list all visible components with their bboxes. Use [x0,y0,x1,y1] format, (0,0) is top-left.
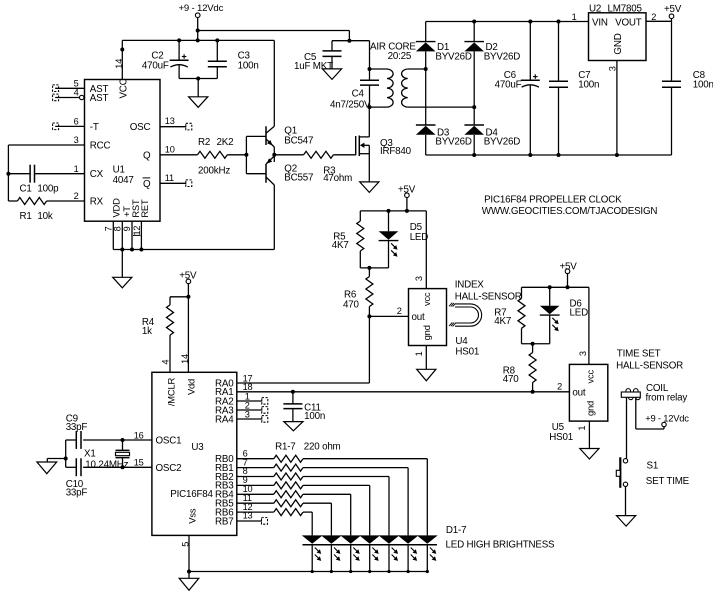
svg-text:Q: Q [143,150,151,161]
node +5V terminal R5 [398,184,416,211]
crystal circuit wires OSC1 [66,430,152,442]
regulator U2 LM7805 [589,3,647,60]
svg-text:1: 1 [74,164,79,174]
svg-text:3: 3 [608,66,618,71]
coil from relay [621,383,687,404]
LED D5 high brightness [340,535,361,573]
wire DC+ rail to U2 VIN [426,12,589,24]
svg-text:D1-7: D1-7 [446,525,466,536]
svg-text:BYV26D: BYV26D [484,137,521,148]
svg-text:S1: S1 [647,460,659,471]
wire DC- bottom rail [426,153,672,157]
capacitor C1 [8,164,84,195]
LED D1 high brightness [417,535,438,573]
svg-text:C4: C4 [352,89,365,100]
svg-text:+5V: +5V [398,184,416,195]
wire RB5 to LED column [330,503,332,535]
svg-text:14: 14 [114,59,124,69]
svg-text:LED: LED [410,232,429,243]
node Q1/Q2 emitters [272,147,276,162]
pin 1 RA2 stub [237,391,268,404]
svg-text:4K7: 4K7 [494,316,511,327]
resistor R1 on RB0 [237,448,427,462]
pin 17 RA0 number [243,373,253,383]
svg-text:BC557: BC557 [284,173,313,184]
svg-text:OSC1: OSC1 [156,436,182,447]
hall sensor U5 HS01 [549,351,608,443]
transistor Q1 BC547 [266,126,313,148]
svg-text:LED HIGH BRIGHTNESS: LED HIGH BRIGHTNESS [446,540,556,551]
wire top rail A [196,29,350,41]
resistor R2 [160,137,246,177]
svg-text:RX: RX [90,197,104,208]
wire +5V rail to U4 vcc [360,209,426,289]
resistor R5 [332,211,364,268]
svg-text:PIC16F84: PIC16F84 [170,489,213,500]
resistor R1 [8,191,84,222]
svg-text:13: 13 [243,511,253,521]
ground under U3 Vss [179,578,199,590]
LED D3 high brightness [379,535,400,573]
svg-text:Q: Q [143,179,151,190]
resistor R2 on RB1 [237,457,408,471]
ground under U4 [417,369,436,381]
svg-text:/MCLR: /MCLR [165,377,176,406]
wire +5V rail to U5 vcc [522,285,589,364]
svg-text:IRF840: IRF840 [380,146,412,157]
svg-text:8: 8 [113,226,123,231]
node +9-12Vdc terminal coil [645,412,689,426]
crystal circuit wires OSC2 [66,457,152,469]
svg-text:2K2: 2K2 [217,137,234,148]
svg-text:Vss: Vss [186,508,197,524]
pin 6 -T stub [53,117,85,130]
pin 13 OSC stub [160,116,192,130]
svg-text:Vdd: Vdd [186,379,197,395]
svg-text:1: 1 [414,351,424,356]
diode D3 BYV26D [416,125,472,155]
pin 11 /Q stub [160,173,192,187]
LED D6 [540,287,588,343]
ground under C11 [284,422,303,431]
svg-text:CX: CX [90,169,104,180]
wire LED cathode bus to Vss [187,570,427,574]
svg-text:RB7: RB7 [215,516,233,527]
svg-text:BYV26D: BYV26D [435,137,472,148]
svg-text:200kHz: 200kHz [198,166,230,177]
resistor R4 [142,297,189,373]
wire Q1/Q2 base bracket [244,136,266,173]
svg-text:WWW.GEOCITIES.COM/TJACODESIGN: WWW.GEOCITIES.COM/TJACODESIGN [482,206,658,217]
svg-text:10k: 10k [37,211,52,222]
capacitor C10 [66,458,88,498]
svg-text:gnd: gnd [421,325,432,340]
svg-text:9: 9 [122,226,132,231]
ground under Q3 [360,182,379,193]
svg-text:AST: AST [90,93,109,104]
svg-text:VDD: VDD [111,198,122,218]
wire RB2 to LED column [388,477,390,536]
LED D7 high brightness [302,535,323,573]
svg-text:4K7: 4K7 [332,240,349,251]
svg-text:470uF: 470uF [495,80,522,91]
svg-text:R1: R1 [20,211,32,222]
wire U5 gnd pin 1 [588,421,590,448]
ground under S1 [617,516,636,527]
pin 18 RA1 number [243,382,253,392]
svg-text:HS01: HS01 [455,346,479,357]
capacitor C2 [142,40,189,78]
wire C5-transformer node [332,39,370,43]
svg-text:BC547: BC547 [284,136,313,147]
svg-text:U3: U3 [191,442,204,453]
pin 3 RCC wire [8,135,84,145]
svg-text:470uF: 470uF [142,60,169,71]
svg-text:RCC: RCC [90,141,111,152]
svg-text:VIN: VIN [592,18,608,29]
ground left of crystal [37,462,57,474]
svg-text:C1: C1 [20,184,32,195]
svg-text:4047: 4047 [113,175,134,186]
capacitor C7 [549,22,599,156]
svg-text:X1: X1 [84,449,96,460]
svg-text:GND: GND [613,33,624,54]
svg-text:2: 2 [397,306,402,316]
pin 2 RA3 stub [237,400,268,413]
svg-text:16: 16 [134,430,144,440]
resistor R4 on RB3 [237,475,370,489]
pin 5 AST stub [53,78,85,91]
pin labels 4 and 14 U3 [161,354,191,365]
wire left vertical RCC-C1-R1 [6,145,10,201]
svg-text:470: 470 [343,300,359,311]
capacitor C4 [330,69,379,111]
transistor Q3 IRF840 [356,107,412,182]
svg-text:100n: 100n [578,80,599,91]
transistor Q2 BC557 [266,156,313,185]
wire U1 bottom pins to bus [113,221,274,251]
wire U4 gnd pin 1 [425,346,427,370]
node +5V output terminal [664,4,682,19]
wire RB0 to LED column [426,459,428,536]
svg-text:SET TIME: SET TIME [646,476,690,487]
svg-text:1: 1 [572,12,577,22]
resistor R3 on RB2 [237,466,389,480]
hall sensor U4 HS01 [409,276,480,357]
svg-text:R2: R2 [198,137,210,148]
wire coil right lead to +9-12Vdc [636,397,664,429]
svg-text:-T: -T [90,122,99,133]
wire U2 VOUT to +5V [646,12,672,22]
svg-text:220 ohm: 220 ohm [304,441,341,452]
svg-text:+5V: +5V [179,271,197,282]
wire RB6 to LED column [311,512,313,535]
capacitor C8 [662,21,713,155]
svg-text:1k: 1k [142,326,152,337]
ground under U1 [113,277,132,288]
svg-text:R1-7: R1-7 [275,441,295,452]
svg-text:20:25: 20:25 [388,51,412,62]
svg-text:3: 3 [245,409,250,419]
svg-text:4: 4 [74,88,79,98]
svg-text:100n: 100n [693,80,713,91]
svg-text:6: 6 [74,117,79,127]
svg-text:33pF: 33pF [66,422,88,433]
wire LED cathode bar [303,544,438,546]
resistor R5 on RB4 [237,484,351,498]
LED D4 high brightness [359,535,380,573]
wire U4 out to RA0 [237,306,409,383]
resistor R7 [494,287,525,343]
svg-text:3: 3 [414,276,424,281]
svg-text:RA4: RA4 [215,414,234,425]
svg-text:HS01: HS01 [549,432,573,443]
resistor R6 [343,268,373,317]
wire R7-D6 bottom node [522,342,550,346]
pin 3 RA4 stub [237,409,268,422]
svg-text:HALL-SENSOR: HALL-SENSOR [616,360,683,371]
ground under U5 [580,449,599,460]
wire RB1 to LED column [407,468,409,536]
resistor R3 [274,151,355,184]
capacitor C3 [208,40,259,78]
wire R5-D5 bottom node [360,266,388,270]
svg-text:+9 - 12Vdc: +9 - 12Vdc [645,412,689,423]
svg-text:47ohm: 47ohm [323,173,352,184]
svg-text:VOUT: VOUT [615,18,642,29]
svg-text:BYV26D: BYV26D [435,52,472,63]
svg-text:100n: 100n [238,60,259,71]
svg-text:100p: 100p [37,184,59,195]
wire RA1 to U5 out [237,382,570,394]
microcontroller U3 PIC16F84 body [152,372,237,535]
ground under C5 [322,69,341,80]
ground under C2/C3 [189,97,208,108]
wire secondary bottom to bridge [426,106,475,108]
svg-text:+9 - 12Vdc: +9 - 12Vdc [179,3,224,14]
diode D2 BYV26D [464,20,520,126]
wire Q1 collector up [273,40,275,126]
svg-text:12: 12 [132,226,142,236]
svg-text:OSC2: OSC2 [156,463,182,474]
svg-text:4n7/250V: 4n7/250V [330,100,371,111]
pin 4 AST stub with bubble [53,88,84,101]
wire top rail B [122,38,274,42]
svg-text:2: 2 [651,12,656,22]
svg-text:vcc: vcc [584,369,595,383]
label TIME SET HALL-SENSOR [616,349,683,372]
wire RB4 to LED column [350,494,352,535]
capacitor C6 [495,22,540,156]
wire coil left lead to S1 [626,397,628,458]
svg-text:100n: 100n [304,411,325,422]
svg-text:3: 3 [74,135,79,145]
svg-text:2: 2 [557,382,562,392]
svg-text:2: 2 [74,191,79,201]
switch S1 [616,457,689,488]
pin 13 RB7 stub [237,511,268,524]
wire U2 GND pin 3 [608,61,618,156]
svg-text:BYV26D: BYV26D [484,52,521,63]
label D1-7 LED HIGH BRIGHTNESS [446,525,556,551]
label R1-7 220 ohm [275,441,340,452]
svg-text:out: out [412,312,425,323]
svg-text:13: 13 [165,116,175,126]
wire VCC drop to U1 pin 14 [120,40,124,79]
svg-text:10.24MHz: 10.24MHz [85,459,128,470]
diode D1 BYV26D [416,22,472,126]
svg-text:VCC: VCC [118,78,129,98]
svg-text:+5V: +5V [664,4,682,15]
node +5V terminal R7 [560,261,578,287]
wire crystal left bracket [47,440,67,467]
diode D4 BYV26D [464,125,520,157]
LED D6 high brightness [321,535,342,573]
node +9-12Vdc supply terminal [179,3,224,40]
svg-text:33pF: 33pF [66,487,88,498]
svg-text:HALL-SENSOR: HALL-SENSOR [455,292,522,303]
svg-text:gnd: gnd [584,401,595,416]
capacitor C11 [283,392,325,422]
wire RB3 to LED column [369,485,371,535]
svg-text:TIME SET: TIME SET [617,349,661,360]
wire ground stem U1 [121,250,123,278]
op-amp U1 4047 body [85,78,161,221]
resistor R7 on RB6 [237,502,312,516]
svg-text:11: 11 [165,173,174,183]
svg-text:LM7805: LM7805 [608,3,643,14]
svg-text:out: out [572,387,585,398]
resistor R8 [503,344,536,392]
label INDEX HALL-SENSOR [455,280,522,303]
wire C2-C3 bottom node [179,77,217,97]
svg-text:U1: U1 [113,165,125,176]
resistor R6 on RB5 [237,493,332,507]
capacitor C5 [294,41,342,72]
svg-text:3: 3 [578,351,588,356]
transformer T1 air core [370,42,426,108]
svg-text:470: 470 [503,374,519,385]
capacitor C9 [66,413,88,449]
svg-text:RET: RET [139,199,150,218]
title text [482,195,658,217]
wire Q2 collector down to bus [273,185,275,250]
svg-text:+5V: +5V [560,261,578,272]
svg-text:5: 5 [180,542,190,547]
svg-text:from relay: from relay [646,393,688,404]
pin 14 label U1 [114,59,124,69]
svg-text:U2: U2 [589,3,601,14]
svg-text:PIC16F84 PROPELLER CLOCK: PIC16F84 PROPELLER CLOCK [484,195,622,206]
wire S1 to ground [625,487,627,516]
svg-text:15: 15 [134,457,144,467]
LED D2 high brightness [398,535,419,573]
svg-text:4: 4 [161,360,171,365]
wire transformer primary drop [368,41,372,71]
svg-text:vcc: vcc [421,292,432,306]
svg-text:INDEX: INDEX [455,280,485,291]
pin numbers 7 8 9 12 under U1 [104,226,142,236]
node +5V terminal R4 [179,271,197,373]
magnet symbol horseshoe [449,303,482,327]
crystal X1 [84,440,130,470]
LED D5 [379,211,429,268]
svg-text:10: 10 [165,144,175,154]
wire Vss pin 5 [180,535,190,578]
svg-text:1: 1 [577,426,587,431]
svg-text:LED: LED [570,308,589,319]
svg-text:OSC: OSC [130,122,151,133]
svg-text:14: 14 [180,354,190,364]
